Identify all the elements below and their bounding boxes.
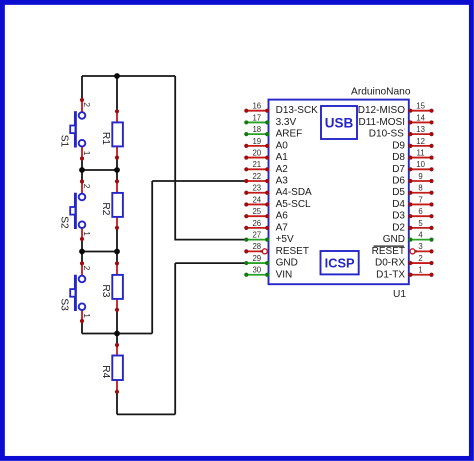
svg-text:15: 15 [416, 102, 425, 111]
svg-text:D7: D7 [392, 164, 405, 175]
svg-text:3: 3 [418, 242, 422, 251]
svg-text:VIN: VIN [276, 269, 293, 280]
svg-text:11: 11 [417, 149, 425, 158]
svg-text:22: 22 [252, 172, 261, 181]
svg-text:1: 1 [418, 266, 422, 275]
svg-text:5: 5 [418, 219, 423, 228]
svg-text:12: 12 [416, 137, 425, 146]
svg-text:D1-TX: D1-TX [376, 269, 405, 280]
svg-text:19: 19 [252, 137, 261, 146]
svg-text:R1: R1 [100, 132, 111, 145]
svg-text:A1: A1 [276, 152, 289, 163]
svg-text:16: 16 [252, 102, 261, 111]
svg-text:6: 6 [418, 207, 422, 216]
svg-text:A5-SCL: A5-SCL [276, 199, 311, 210]
svg-text:ArduinoNano: ArduinoNano [351, 87, 411, 98]
svg-text:A3: A3 [276, 176, 289, 187]
svg-text:GND: GND [276, 258, 298, 269]
svg-text:D11-MOSI: D11-MOSI [359, 117, 406, 128]
svg-text:D2: D2 [392, 222, 405, 233]
svg-text:17: 17 [252, 113, 261, 122]
svg-text:GND: GND [383, 234, 405, 245]
svg-text:28: 28 [252, 242, 261, 251]
svg-text:9: 9 [418, 172, 422, 181]
svg-text:25: 25 [252, 207, 261, 216]
svg-text:10: 10 [416, 160, 425, 169]
svg-text:24: 24 [252, 195, 261, 204]
svg-text:20: 20 [252, 149, 261, 158]
svg-text:AREF: AREF [276, 129, 303, 140]
svg-text:S2: S2 [58, 216, 69, 229]
svg-text:1: 1 [82, 151, 92, 156]
svg-text:2: 2 [82, 266, 92, 271]
svg-text:D3: D3 [392, 211, 405, 222]
svg-text:S3: S3 [58, 298, 69, 311]
svg-text:D4: D4 [392, 199, 405, 210]
svg-text:4: 4 [418, 231, 423, 240]
svg-text:D5: D5 [392, 187, 405, 198]
svg-text:R2: R2 [100, 202, 111, 215]
svg-text:R4: R4 [100, 365, 111, 378]
svg-text:26: 26 [252, 219, 261, 228]
svg-text:D8: D8 [392, 152, 405, 163]
svg-text:2: 2 [82, 102, 92, 107]
svg-text:1: 1 [82, 313, 92, 318]
svg-text:D12-MISO: D12-MISO [358, 105, 405, 116]
svg-text:7: 7 [418, 195, 422, 204]
svg-text:S1: S1 [58, 135, 69, 148]
svg-text:D6: D6 [392, 176, 405, 187]
svg-text:A6: A6 [276, 211, 289, 222]
svg-text:2: 2 [418, 254, 422, 263]
svg-text:D0-RX: D0-RX [375, 258, 405, 269]
svg-text:A4-SDA: A4-SDA [276, 187, 312, 198]
svg-text:D10-SS': D10-SS' [369, 128, 405, 140]
svg-text:RESET: RESET [276, 246, 309, 257]
svg-text:18: 18 [252, 125, 261, 134]
svg-text:3.3V: 3.3V [276, 117, 297, 128]
svg-text:U1: U1 [393, 289, 406, 300]
svg-text:23: 23 [252, 184, 261, 193]
svg-text:USB: USB [325, 115, 354, 130]
svg-text:R3: R3 [100, 284, 111, 297]
svg-text:A2: A2 [276, 164, 289, 175]
svg-text:14: 14 [416, 113, 425, 122]
svg-text:8: 8 [418, 184, 422, 193]
svg-text:D9: D9 [392, 140, 405, 151]
svg-text:13: 13 [416, 125, 425, 134]
svg-text:+5V: +5V [276, 234, 294, 245]
svg-text:1: 1 [82, 231, 92, 236]
svg-text:27: 27 [252, 231, 261, 240]
svg-text:30: 30 [252, 266, 261, 275]
svg-text:2: 2 [82, 184, 92, 189]
svg-text:D13-SCK: D13-SCK [276, 105, 319, 116]
svg-text:RESET: RESET [372, 246, 405, 257]
svg-text:A7: A7 [276, 222, 289, 233]
svg-text:A0: A0 [276, 140, 289, 151]
svg-text:21: 21 [252, 160, 261, 169]
svg-text:ICSP: ICSP [325, 256, 355, 271]
svg-text:29: 29 [252, 254, 261, 263]
